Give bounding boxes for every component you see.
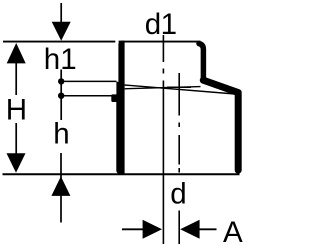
svg-text:d: d [170, 178, 186, 211]
svg-text:d1: d1 [145, 8, 177, 41]
svg-text:h: h [53, 118, 69, 151]
svg-text:A: A [223, 216, 243, 249]
svg-text:h1: h1 [44, 43, 77, 76]
svg-text:H: H [6, 94, 27, 127]
